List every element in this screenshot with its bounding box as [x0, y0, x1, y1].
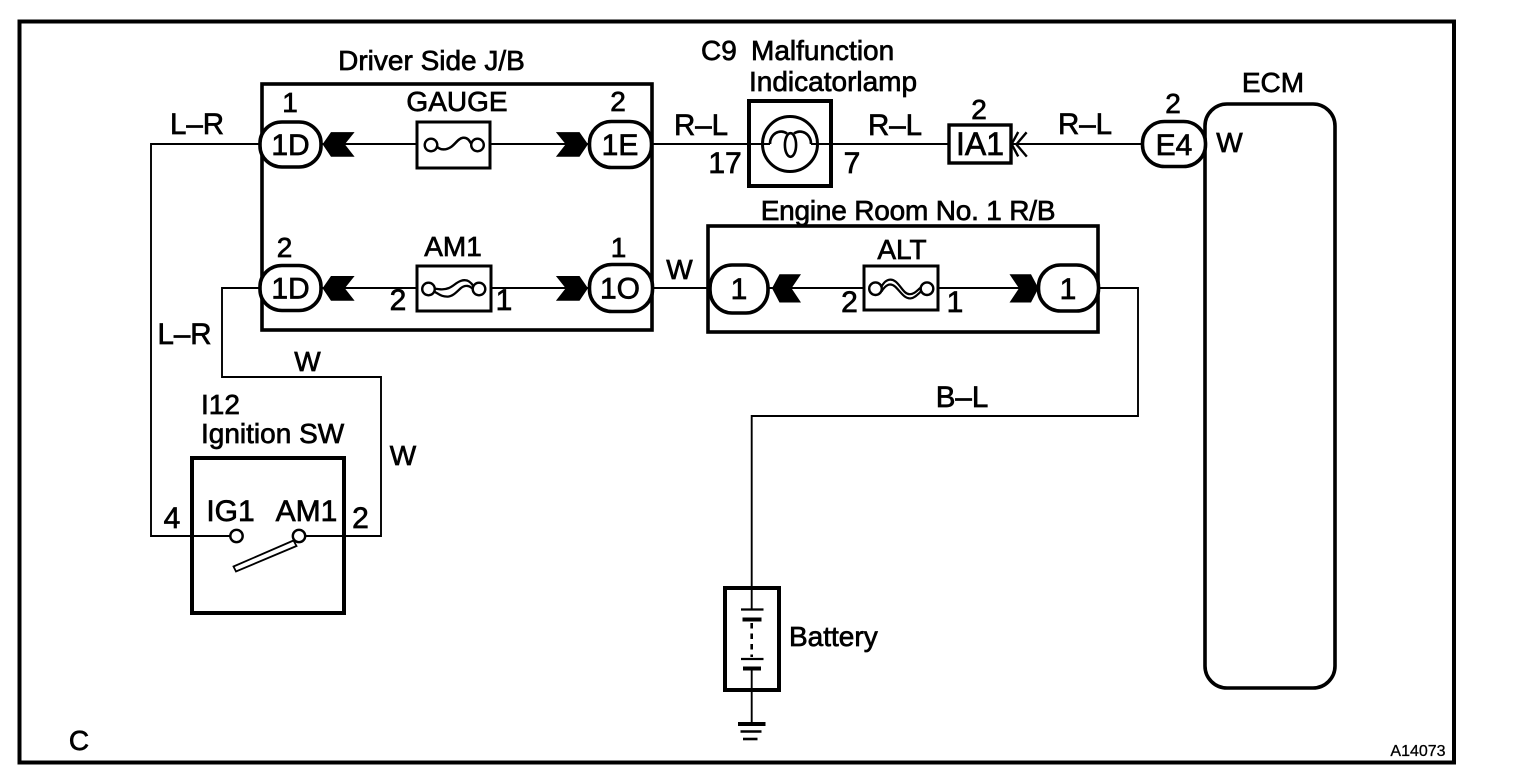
wire row2 inside Driver Side J/B	[321, 287, 589, 289]
fuse AM1 box	[417, 266, 491, 311]
svg-text:1: 1	[947, 286, 964, 319]
fuse AM1 element	[434, 280, 474, 296]
svg-text:A14073: A14073	[1390, 743, 1445, 760]
svg-text:2: 2	[352, 502, 369, 535]
svg-text:W: W	[294, 346, 321, 377]
svg-text:I12: I12	[201, 389, 240, 420]
svg-text:1: 1	[496, 284, 513, 317]
arrow left Engine Room	[772, 274, 801, 302]
wire inside Engine Room R/B	[766, 287, 1040, 289]
connector 1D row2 oval	[260, 266, 321, 311]
svg-text:1: 1	[611, 232, 627, 263]
fuse GAUGE left terminal	[425, 139, 438, 152]
ground symbol	[738, 722, 766, 726]
svg-text:1D: 1D	[271, 129, 309, 162]
svg-text:1D: 1D	[271, 273, 309, 306]
ignition switch I12 box	[192, 458, 344, 613]
svg-text:ECM: ECM	[1242, 67, 1304, 98]
svg-text:R–L: R–L	[868, 109, 922, 142]
lamp C9 box	[749, 101, 831, 186]
connector IA1 chevrons	[1012, 132, 1027, 157]
lamp filament wire right	[811, 143, 831, 145]
svg-text:E4: E4	[1156, 129, 1193, 162]
svg-text:Malfunction: Malfunction	[751, 35, 894, 66]
fuse AM1 left terminal	[422, 283, 435, 296]
svg-text:1: 1	[282, 87, 298, 118]
fuse AM1 right terminal	[473, 283, 486, 296]
fuse ALT left terminal	[869, 282, 882, 295]
svg-text:B–L: B–L	[936, 381, 989, 414]
wire battery to ground	[751, 668, 753, 722]
svg-text:2: 2	[841, 286, 858, 319]
svg-text:IG1: IG1	[206, 495, 254, 528]
svg-text:1O: 1O	[600, 273, 640, 306]
battery plate 1	[741, 608, 764, 610]
svg-text:GAUGE: GAUGE	[406, 86, 507, 117]
svg-text:1: 1	[731, 273, 748, 306]
svg-text:Engine Room No. 1 R/B: Engine Room No. 1 R/B	[761, 195, 1056, 226]
svg-text:2: 2	[390, 284, 407, 317]
ECM box	[1205, 104, 1335, 688]
wire row1 inside Driver Side J/B	[321, 143, 589, 145]
fuse GAUGE box	[417, 122, 490, 168]
svg-text:AM1: AM1	[276, 495, 338, 528]
wire W from 1D row2 to ignition switch AM1	[222, 288, 381, 536]
svg-text:AM1: AM1	[424, 231, 482, 262]
battery plate 2	[743, 618, 762, 622]
wire L-R from 1D row1 to ignition switch IG1	[151, 144, 262, 536]
ignition switch terminal IG1	[230, 530, 242, 542]
fuse GAUGE element	[437, 138, 472, 150]
Engine Room right oval 1	[1039, 265, 1099, 311]
svg-text:W: W	[666, 254, 693, 285]
svg-text:Battery: Battery	[789, 621, 878, 652]
arrow left row1	[323, 132, 355, 157]
ignition switch terminal AM1	[293, 530, 305, 542]
svg-text:C9: C9	[701, 35, 737, 66]
svg-text:2: 2	[1165, 88, 1181, 119]
lamp filament left arch	[770, 132, 787, 144]
svg-text:W: W	[1216, 127, 1243, 158]
svg-text:2: 2	[277, 232, 293, 263]
svg-text:R–L: R–L	[1058, 108, 1112, 141]
lamp filament right arch	[794, 132, 811, 144]
arrow right Engine Room	[1010, 274, 1039, 302]
arrow right row2	[556, 276, 588, 301]
wire B-L from Engine Room right oval to battery	[752, 288, 1138, 609]
svg-text:L–R: L–R	[170, 108, 224, 141]
svg-text:W: W	[390, 440, 417, 471]
svg-text:R–L: R–L	[674, 109, 728, 142]
fuse ALT right terminal	[921, 282, 934, 295]
svg-text:17: 17	[708, 147, 741, 180]
svg-text:Ignition SW: Ignition SW	[201, 418, 345, 449]
svg-text:1: 1	[1060, 273, 1077, 306]
wire 1O to Engine Room left oval	[653, 287, 714, 289]
svg-text:7: 7	[844, 147, 861, 180]
lamp C9 bulb circle	[763, 117, 818, 172]
svg-text:2: 2	[971, 94, 987, 125]
svg-text:2: 2	[610, 86, 626, 117]
connector 1E oval	[590, 122, 652, 168]
ignition switch lever	[234, 541, 297, 572]
connector E4 oval	[1143, 122, 1206, 167]
arrow left row2	[323, 276, 355, 301]
lamp filament loop	[785, 133, 796, 157]
svg-text:ALT: ALT	[877, 234, 926, 265]
connector IA1 box	[949, 125, 1011, 163]
connector 1D row1 oval	[260, 122, 321, 167]
svg-text:Indicatorlamp: Indicatorlamp	[749, 66, 917, 97]
svg-text:L–R: L–R	[157, 318, 211, 351]
Engine Room No.1 R/B box	[708, 226, 1098, 332]
battery box	[725, 588, 779, 690]
wire 1E to E4 through lamp and IA1	[651, 143, 1142, 145]
battery plate 4	[743, 667, 761, 671]
Engine Room left oval 1	[710, 265, 768, 313]
fuse ALT element	[881, 280, 922, 299]
svg-text:C: C	[69, 725, 89, 756]
battery plate 3	[741, 658, 764, 660]
Driver Side J/B box	[262, 84, 652, 330]
battery dashed electrolyte	[750, 623, 753, 657]
svg-text:1E: 1E	[602, 129, 639, 162]
svg-text:Driver Side J/B: Driver Side J/B	[338, 45, 525, 76]
arrow right row1	[556, 132, 588, 157]
lamp filament wire left	[749, 143, 770, 145]
fuse GAUGE right terminal	[471, 139, 484, 152]
connector 1O oval	[590, 265, 653, 312]
svg-text:IA1: IA1	[956, 126, 1004, 162]
svg-text:4: 4	[164, 502, 181, 535]
fuse ALT box	[864, 266, 938, 310]
